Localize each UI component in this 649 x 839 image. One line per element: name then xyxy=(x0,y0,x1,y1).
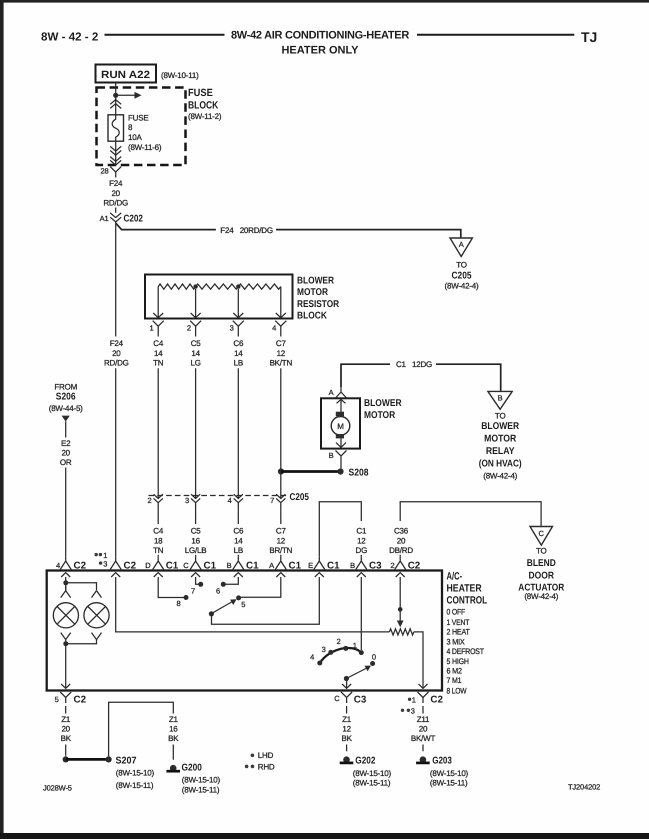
svg-text:FUSE: FUSE xyxy=(128,114,148,123)
rotary wiper arm xyxy=(344,666,371,682)
svg-text:14: 14 xyxy=(234,349,243,358)
svg-text:8 LOW: 8 LOW xyxy=(447,686,467,695)
wire: mode wiper to pin E C1 xyxy=(212,577,320,624)
svg-text:CONTROL: CONTROL xyxy=(447,594,488,606)
svg-text:20: 20 xyxy=(111,189,120,198)
svg-text:TO: TO xyxy=(536,546,547,555)
svg-text:3: 3 xyxy=(185,496,189,505)
svg-text:(8W-15-10): (8W-15-10) xyxy=(430,769,469,778)
node: tap 2 xyxy=(193,284,197,288)
svg-text:3: 3 xyxy=(411,707,415,716)
contact 6 xyxy=(216,582,226,596)
wire Z1 16 BK (S207 to G200) xyxy=(109,702,180,759)
C205 pin 4 xyxy=(228,494,243,505)
wire: pin D C1 to contact 8 xyxy=(158,577,184,598)
svg-text:BLOWER: BLOWER xyxy=(481,421,519,432)
svg-text:4: 4 xyxy=(272,324,276,333)
svg-text:3: 3 xyxy=(103,559,107,568)
wire C6 14 LB (C205 to pin B C1) xyxy=(233,505,244,556)
contact 8 xyxy=(176,595,188,608)
svg-text:C4: C4 xyxy=(153,339,164,348)
illumination lamp 1 xyxy=(53,586,78,644)
svg-text:C2: C2 xyxy=(430,695,443,706)
svg-text:14: 14 xyxy=(191,349,200,358)
svg-text:C6: C6 xyxy=(233,339,244,348)
svg-text:C: C xyxy=(183,561,189,570)
svg-text:A1: A1 xyxy=(100,214,109,223)
svg-text:C1: C1 xyxy=(356,527,367,536)
svg-text:(8W-15-11): (8W-15-11) xyxy=(353,779,391,788)
svg-text:5: 5 xyxy=(55,695,59,704)
svg-text:TN: TN xyxy=(153,546,164,555)
resistor element 2 xyxy=(196,284,239,289)
resistor element 1 xyxy=(158,284,195,289)
svg-text:M: M xyxy=(337,422,344,431)
svg-text:4: 4 xyxy=(310,653,314,662)
wire: C202 down to control head pin 3 C2 (F24 20 RD/DG) xyxy=(104,222,129,556)
wire C4 18 TN (C205 to pin D C1) xyxy=(153,505,164,556)
svg-text:C1: C1 xyxy=(246,560,259,571)
wire F24 20 RD/DG fuse to C202 xyxy=(103,179,128,213)
svg-text:6: 6 xyxy=(216,587,220,596)
svg-text:4: 4 xyxy=(228,496,232,505)
off-page connector B to blower motor relay xyxy=(479,391,522,480)
svg-text:7 M1: 7 M1 xyxy=(447,676,462,685)
svg-text:C202: C202 xyxy=(124,214,144,225)
wire Z1 12 BK (pin C C3 to G202) xyxy=(341,706,352,751)
off-page connector A to C205 xyxy=(445,238,479,290)
svg-text:G202: G202 xyxy=(355,756,376,767)
svg-text:C3: C3 xyxy=(354,695,367,706)
wire C1 12DG blower feed xyxy=(341,360,501,391)
svg-text:1: 1 xyxy=(149,324,153,333)
svg-text:C205: C205 xyxy=(290,492,310,503)
terminal chevrons below fuse xyxy=(110,141,121,165)
wire: pin B C3 to rotary position 1 xyxy=(360,577,362,650)
contact 7 xyxy=(191,582,203,596)
fuse block label xyxy=(188,87,222,121)
svg-text:(8W-15-10): (8W-15-10) xyxy=(116,769,155,778)
wire C6 14 LB (pin3 to C205 pin4) xyxy=(233,332,244,499)
svg-text:8: 8 xyxy=(176,599,180,608)
svg-text:14: 14 xyxy=(234,537,243,546)
svg-text:0: 0 xyxy=(372,653,376,662)
off-page connector C to blend door actuator xyxy=(518,527,564,602)
svg-text:BLOCK: BLOCK xyxy=(297,311,327,322)
pin 2 C2 (top) xyxy=(390,556,420,577)
svg-text:C4: C4 xyxy=(153,527,164,536)
wire C36 20 DB/RD (pin 2 C2 to blend door actuator) xyxy=(389,502,541,556)
svg-text:F24: F24 xyxy=(220,226,234,235)
blend door potentiometer resistor xyxy=(389,629,413,635)
svg-text:DB/RD: DB/RD xyxy=(389,546,413,555)
rotary position 4 xyxy=(310,653,322,666)
pin 1/3 C2 (bottom, LHD-RHD) xyxy=(401,684,444,716)
pin A C1 (top) xyxy=(269,556,301,577)
resistor block pin 4 xyxy=(272,287,286,333)
pin 4 C2 (top) xyxy=(56,556,87,577)
A/C-heater control module xyxy=(47,571,488,696)
svg-text:G203: G203 xyxy=(432,756,452,767)
svg-text:18: 18 xyxy=(154,537,163,546)
splice S208 xyxy=(278,468,369,479)
svg-text:C: C xyxy=(334,694,340,703)
wire: RUN A22 to fuse xyxy=(115,83,117,115)
svg-text:14: 14 xyxy=(154,349,163,358)
svg-text:5 HIGH: 5 HIGH xyxy=(447,657,470,666)
wire: pin B C1 to contact 6 xyxy=(226,577,239,584)
svg-text:TO: TO xyxy=(456,261,467,270)
wire C7 12 BR/TN (C205 to pin A C1) xyxy=(269,505,292,556)
svg-text:D: D xyxy=(145,561,151,570)
svg-text:TJ: TJ xyxy=(581,29,597,45)
svg-text:2: 2 xyxy=(337,637,341,646)
svg-text:E2: E2 xyxy=(61,439,71,448)
svg-text:E: E xyxy=(308,561,313,570)
svg-text:FROM: FROM xyxy=(54,383,77,392)
svg-text:B: B xyxy=(498,394,503,403)
svg-text:(8W-11-2): (8W-11-2) xyxy=(188,112,222,121)
svg-text:Z1: Z1 xyxy=(61,715,71,724)
svg-text:C2: C2 xyxy=(408,560,421,571)
svg-text:C2: C2 xyxy=(74,695,87,706)
svg-text:1: 1 xyxy=(412,696,416,705)
svg-text:12: 12 xyxy=(342,725,351,734)
svg-text:2: 2 xyxy=(187,324,191,333)
svg-text:A: A xyxy=(459,240,464,249)
resistor block pin 2 xyxy=(187,289,201,333)
svg-text:(8W-10-11): (8W-10-11) xyxy=(161,71,199,80)
svg-text:(8W-15-10): (8W-15-10) xyxy=(182,776,221,785)
ground G200 xyxy=(166,762,220,794)
wire E2 20 OR (S206 to pin 4 C2) xyxy=(60,421,72,556)
svg-text:3: 3 xyxy=(230,324,234,333)
svg-text:8W - 42 - 2: 8W - 42 - 2 xyxy=(41,30,98,43)
svg-text:28: 28 xyxy=(100,167,108,176)
wire: lamp 2 return xyxy=(66,640,97,644)
svg-text:BR/TN: BR/TN xyxy=(269,546,292,555)
svg-text:S206: S206 xyxy=(56,391,76,402)
pin 3 C2 / 1 C2 (top, LHD-RHD) xyxy=(95,551,137,577)
rotary position 2 xyxy=(337,637,349,651)
svg-text:C1: C1 xyxy=(289,560,302,571)
svg-text:2: 2 xyxy=(147,496,151,505)
svg-text:TJ204202: TJ204202 xyxy=(568,783,600,792)
svg-text:C2: C2 xyxy=(124,560,137,571)
from S206 feed xyxy=(49,383,83,422)
svg-text:(8W-15-11): (8W-15-11) xyxy=(116,781,154,790)
svg-text:BK: BK xyxy=(341,734,352,743)
svg-text:20: 20 xyxy=(61,449,70,458)
svg-text:RHD: RHD xyxy=(258,762,275,771)
pin B C3 (top) xyxy=(350,556,382,577)
pin C C1 (top) xyxy=(183,556,216,577)
svg-text:RESISTOR: RESISTOR xyxy=(297,299,339,310)
svg-text:FUSE: FUSE xyxy=(188,87,213,99)
illumination lamp 2 xyxy=(84,591,109,640)
C205 pin 3 xyxy=(185,494,200,505)
svg-text:BK/WT: BK/WT xyxy=(411,734,436,743)
ground G202 xyxy=(340,756,392,788)
svg-text:0 OFF: 0 OFF xyxy=(447,608,466,617)
svg-text:3: 3 xyxy=(322,645,326,654)
rotary position 0 xyxy=(370,653,376,667)
connector RUN A22 xyxy=(96,65,200,83)
wire Z11 20 BK/WT (pin C2 to G203) xyxy=(411,706,436,751)
svg-text:12: 12 xyxy=(357,537,366,546)
rotary position 3 xyxy=(322,645,334,655)
svg-text:8W-42 AIR CONDITIONING-HEATER: 8W-42 AIR CONDITIONING-HEATER xyxy=(231,30,409,42)
resistor element 3 xyxy=(238,284,280,289)
svg-text:C7: C7 xyxy=(276,527,287,536)
pin 5 C2 (bottom) xyxy=(55,684,87,706)
svg-text:12: 12 xyxy=(277,537,286,546)
scan border frame xyxy=(0,0,4,839)
svg-text:(8W-11-6): (8W-11-6) xyxy=(128,143,162,152)
fuse 8 10A xyxy=(108,114,162,152)
blower motor pin A xyxy=(329,387,347,398)
svg-text:A: A xyxy=(329,388,334,397)
svg-text:16: 16 xyxy=(191,537,200,546)
svg-text:DG: DG xyxy=(356,546,368,555)
svg-text:4: 4 xyxy=(56,561,60,570)
svg-text:B: B xyxy=(329,451,334,460)
svg-text:2 HEAT: 2 HEAT xyxy=(447,628,470,637)
svg-text:7: 7 xyxy=(191,587,195,596)
svg-text:C2: C2 xyxy=(74,560,87,571)
potentiometer wiper from pin 2 C2 xyxy=(397,577,404,627)
svg-text:8: 8 xyxy=(128,123,133,132)
svg-text:BK/TN: BK/TN xyxy=(270,359,293,368)
connector C202 pin A1 xyxy=(100,213,144,225)
wire: pin 3 C2 feed bus to blend resistor xyxy=(116,577,390,632)
svg-text:S207: S207 xyxy=(116,756,137,767)
svg-text:16: 16 xyxy=(169,725,178,734)
wire: contact 5 to pin A C1 xyxy=(241,577,281,597)
svg-text:(ON HVAC): (ON HVAC) xyxy=(479,459,522,470)
page header xyxy=(41,29,597,56)
svg-text:BLOCK: BLOCK xyxy=(188,99,219,111)
svg-text:1 VENT: 1 VENT xyxy=(447,618,470,627)
blower speed rotary switch track xyxy=(320,648,362,663)
svg-text:TO: TO xyxy=(495,411,506,420)
svg-text:J028W-5: J028W-5 xyxy=(43,783,72,792)
svg-text:BLOWER: BLOWER xyxy=(297,275,334,286)
svg-text:LB: LB xyxy=(234,359,243,368)
resistor block pin 3 xyxy=(230,289,244,333)
svg-text:Z11: Z11 xyxy=(417,715,430,724)
svg-text:F24: F24 xyxy=(110,339,124,348)
node: lamp return junction xyxy=(63,641,68,646)
svg-text:C1: C1 xyxy=(204,560,217,571)
svg-text:20: 20 xyxy=(397,537,406,546)
node: fuse block feed junction xyxy=(113,93,118,98)
wire C5 16 LG/LB (C205 to pin C C1) xyxy=(185,505,207,556)
svg-text:4 DEFROST: 4 DEFROST xyxy=(447,647,485,656)
svg-text:B: B xyxy=(350,561,355,570)
svg-text:C205: C205 xyxy=(452,270,472,281)
wire: feed arrow to other fuse block circuits xyxy=(116,92,142,99)
svg-text:20: 20 xyxy=(419,725,428,734)
node: tap 3 xyxy=(236,284,240,288)
svg-text:RD/DG: RD/DG xyxy=(104,359,129,368)
svg-text:10A: 10A xyxy=(128,133,142,142)
svg-text:20: 20 xyxy=(112,349,121,358)
wire C4 14 TN (pin1 to C205 pin2) xyxy=(153,332,164,499)
pin D C1 (top) xyxy=(145,556,179,577)
svg-text:G200: G200 xyxy=(182,762,203,773)
terminal chevrons above fuse xyxy=(110,100,121,109)
in-line connector C205 xyxy=(149,492,310,503)
fuse block (dashed boundary) xyxy=(97,88,186,166)
svg-text:RELAY: RELAY xyxy=(486,446,515,457)
svg-text:12DG: 12DG xyxy=(412,360,432,369)
wire: branch from C202 to off-page A (F24 20RD/DG) xyxy=(116,223,461,237)
svg-text:A: A xyxy=(269,561,274,570)
svg-text:DOOR: DOOR xyxy=(529,570,555,581)
mode switch wiper arm xyxy=(209,599,237,616)
svg-text:(8W-15-10): (8W-15-10) xyxy=(353,769,392,778)
svg-text:2: 2 xyxy=(390,561,394,570)
svg-text:20: 20 xyxy=(61,725,70,734)
svg-text:F24: F24 xyxy=(109,179,123,188)
svg-text:C1: C1 xyxy=(396,360,407,369)
svg-text:(8W-15-11): (8W-15-11) xyxy=(182,786,220,795)
svg-text:MOTOR: MOTOR xyxy=(364,410,395,421)
svg-text:6 M2: 6 M2 xyxy=(447,667,463,676)
svg-text:RD/DG: RD/DG xyxy=(103,199,128,208)
legend RHD xyxy=(245,762,275,771)
svg-text:5: 5 xyxy=(241,600,245,609)
svg-text:LHD: LHD xyxy=(258,751,274,760)
svg-text:(8W-42-4): (8W-42-4) xyxy=(483,471,517,480)
svg-text:20RD/DG: 20RD/DG xyxy=(240,226,273,235)
svg-text:C7: C7 xyxy=(276,339,287,348)
svg-text:A/C-: A/C- xyxy=(447,571,463,583)
C205 pin 2 xyxy=(147,494,162,505)
pin C C3 (bottom) xyxy=(334,684,367,706)
svg-text:Z1: Z1 xyxy=(169,715,179,724)
svg-text:C5: C5 xyxy=(191,527,202,536)
wire jumper C1 12 DG (pin E C1 to pin B C3) xyxy=(319,502,367,556)
contact 5 xyxy=(236,595,245,609)
svg-text:C6: C6 xyxy=(233,527,244,536)
rotary position 1 xyxy=(353,641,364,655)
C205 pin 7 xyxy=(270,494,285,505)
svg-text:MOTOR: MOTOR xyxy=(484,433,516,444)
svg-text:BLOWER: BLOWER xyxy=(364,398,402,409)
svg-text:B: B xyxy=(227,561,232,570)
svg-text:HEATER: HEATER xyxy=(447,583,482,595)
svg-text:LG/LB: LG/LB xyxy=(185,546,207,555)
blower motor M1 xyxy=(321,398,402,449)
splice S207 xyxy=(63,756,155,790)
wire C5 14 LG (pin2 to C205 pin3) xyxy=(190,332,201,499)
svg-text:C1: C1 xyxy=(327,560,340,571)
svg-text:HEATER ONLY: HEATER ONLY xyxy=(281,44,359,56)
svg-text:7: 7 xyxy=(270,496,274,505)
svg-text:1: 1 xyxy=(353,641,357,650)
svg-text:(8W-44-5): (8W-44-5) xyxy=(49,404,83,413)
blower motor pin B xyxy=(329,451,347,462)
svg-text:TN: TN xyxy=(153,359,164,368)
svg-text:LB: LB xyxy=(234,546,243,555)
wire: lamps to pin 5 C2 xyxy=(65,644,67,688)
svg-text:(8W-15-11): (8W-15-11) xyxy=(430,779,468,788)
wire: pin C C1 to contact 7 xyxy=(196,577,199,584)
svg-text:(8W-42-4): (8W-42-4) xyxy=(524,592,558,601)
svg-text:MOTOR: MOTOR xyxy=(297,287,328,298)
svg-text:Z1: Z1 xyxy=(342,715,352,724)
wire: pin 4 C2 to lamps xyxy=(65,577,67,590)
svg-text:C: C xyxy=(539,529,545,538)
svg-text:BK: BK xyxy=(168,734,179,743)
wire: rotary wiper to pin C C3 xyxy=(346,678,348,687)
svg-text:S208: S208 xyxy=(349,468,369,479)
svg-text:C3: C3 xyxy=(369,560,382,571)
svg-text:12: 12 xyxy=(277,349,286,358)
resistor block pin 1 xyxy=(149,287,163,333)
svg-text:RUN A22: RUN A22 xyxy=(101,69,150,81)
node: lamp feed junction xyxy=(63,580,68,585)
wire: blower B to S208 xyxy=(340,461,342,468)
svg-text:OR: OR xyxy=(60,458,72,467)
wire: branch to lamp 2 xyxy=(66,583,97,591)
svg-text:C1: C1 xyxy=(166,560,179,571)
wire Z1 20 BK (pin 5 C2 to S207) xyxy=(61,706,72,756)
svg-text:BLEND: BLEND xyxy=(527,558,556,569)
svg-text:C5: C5 xyxy=(191,339,202,348)
legend LHD xyxy=(251,751,274,760)
wire: resistor to bottom pin 1/3 C2 xyxy=(414,632,423,688)
pin B C1 (top) xyxy=(227,556,259,577)
svg-text:BK: BK xyxy=(61,734,72,743)
svg-text:LG: LG xyxy=(190,359,200,368)
pin E C1 (top) xyxy=(308,556,340,577)
svg-text:3 MIX: 3 MIX xyxy=(447,637,466,646)
ground G203 xyxy=(416,756,468,788)
svg-text:(8W-42-4): (8W-42-4) xyxy=(445,281,479,290)
pin 28 fuse block exit connector xyxy=(100,167,121,178)
wire C7 12 BK/TN (pin4 to S208 and C205 pin7) xyxy=(270,332,293,499)
blower motor resistor block xyxy=(145,275,339,322)
svg-text:C36: C36 xyxy=(394,527,409,536)
